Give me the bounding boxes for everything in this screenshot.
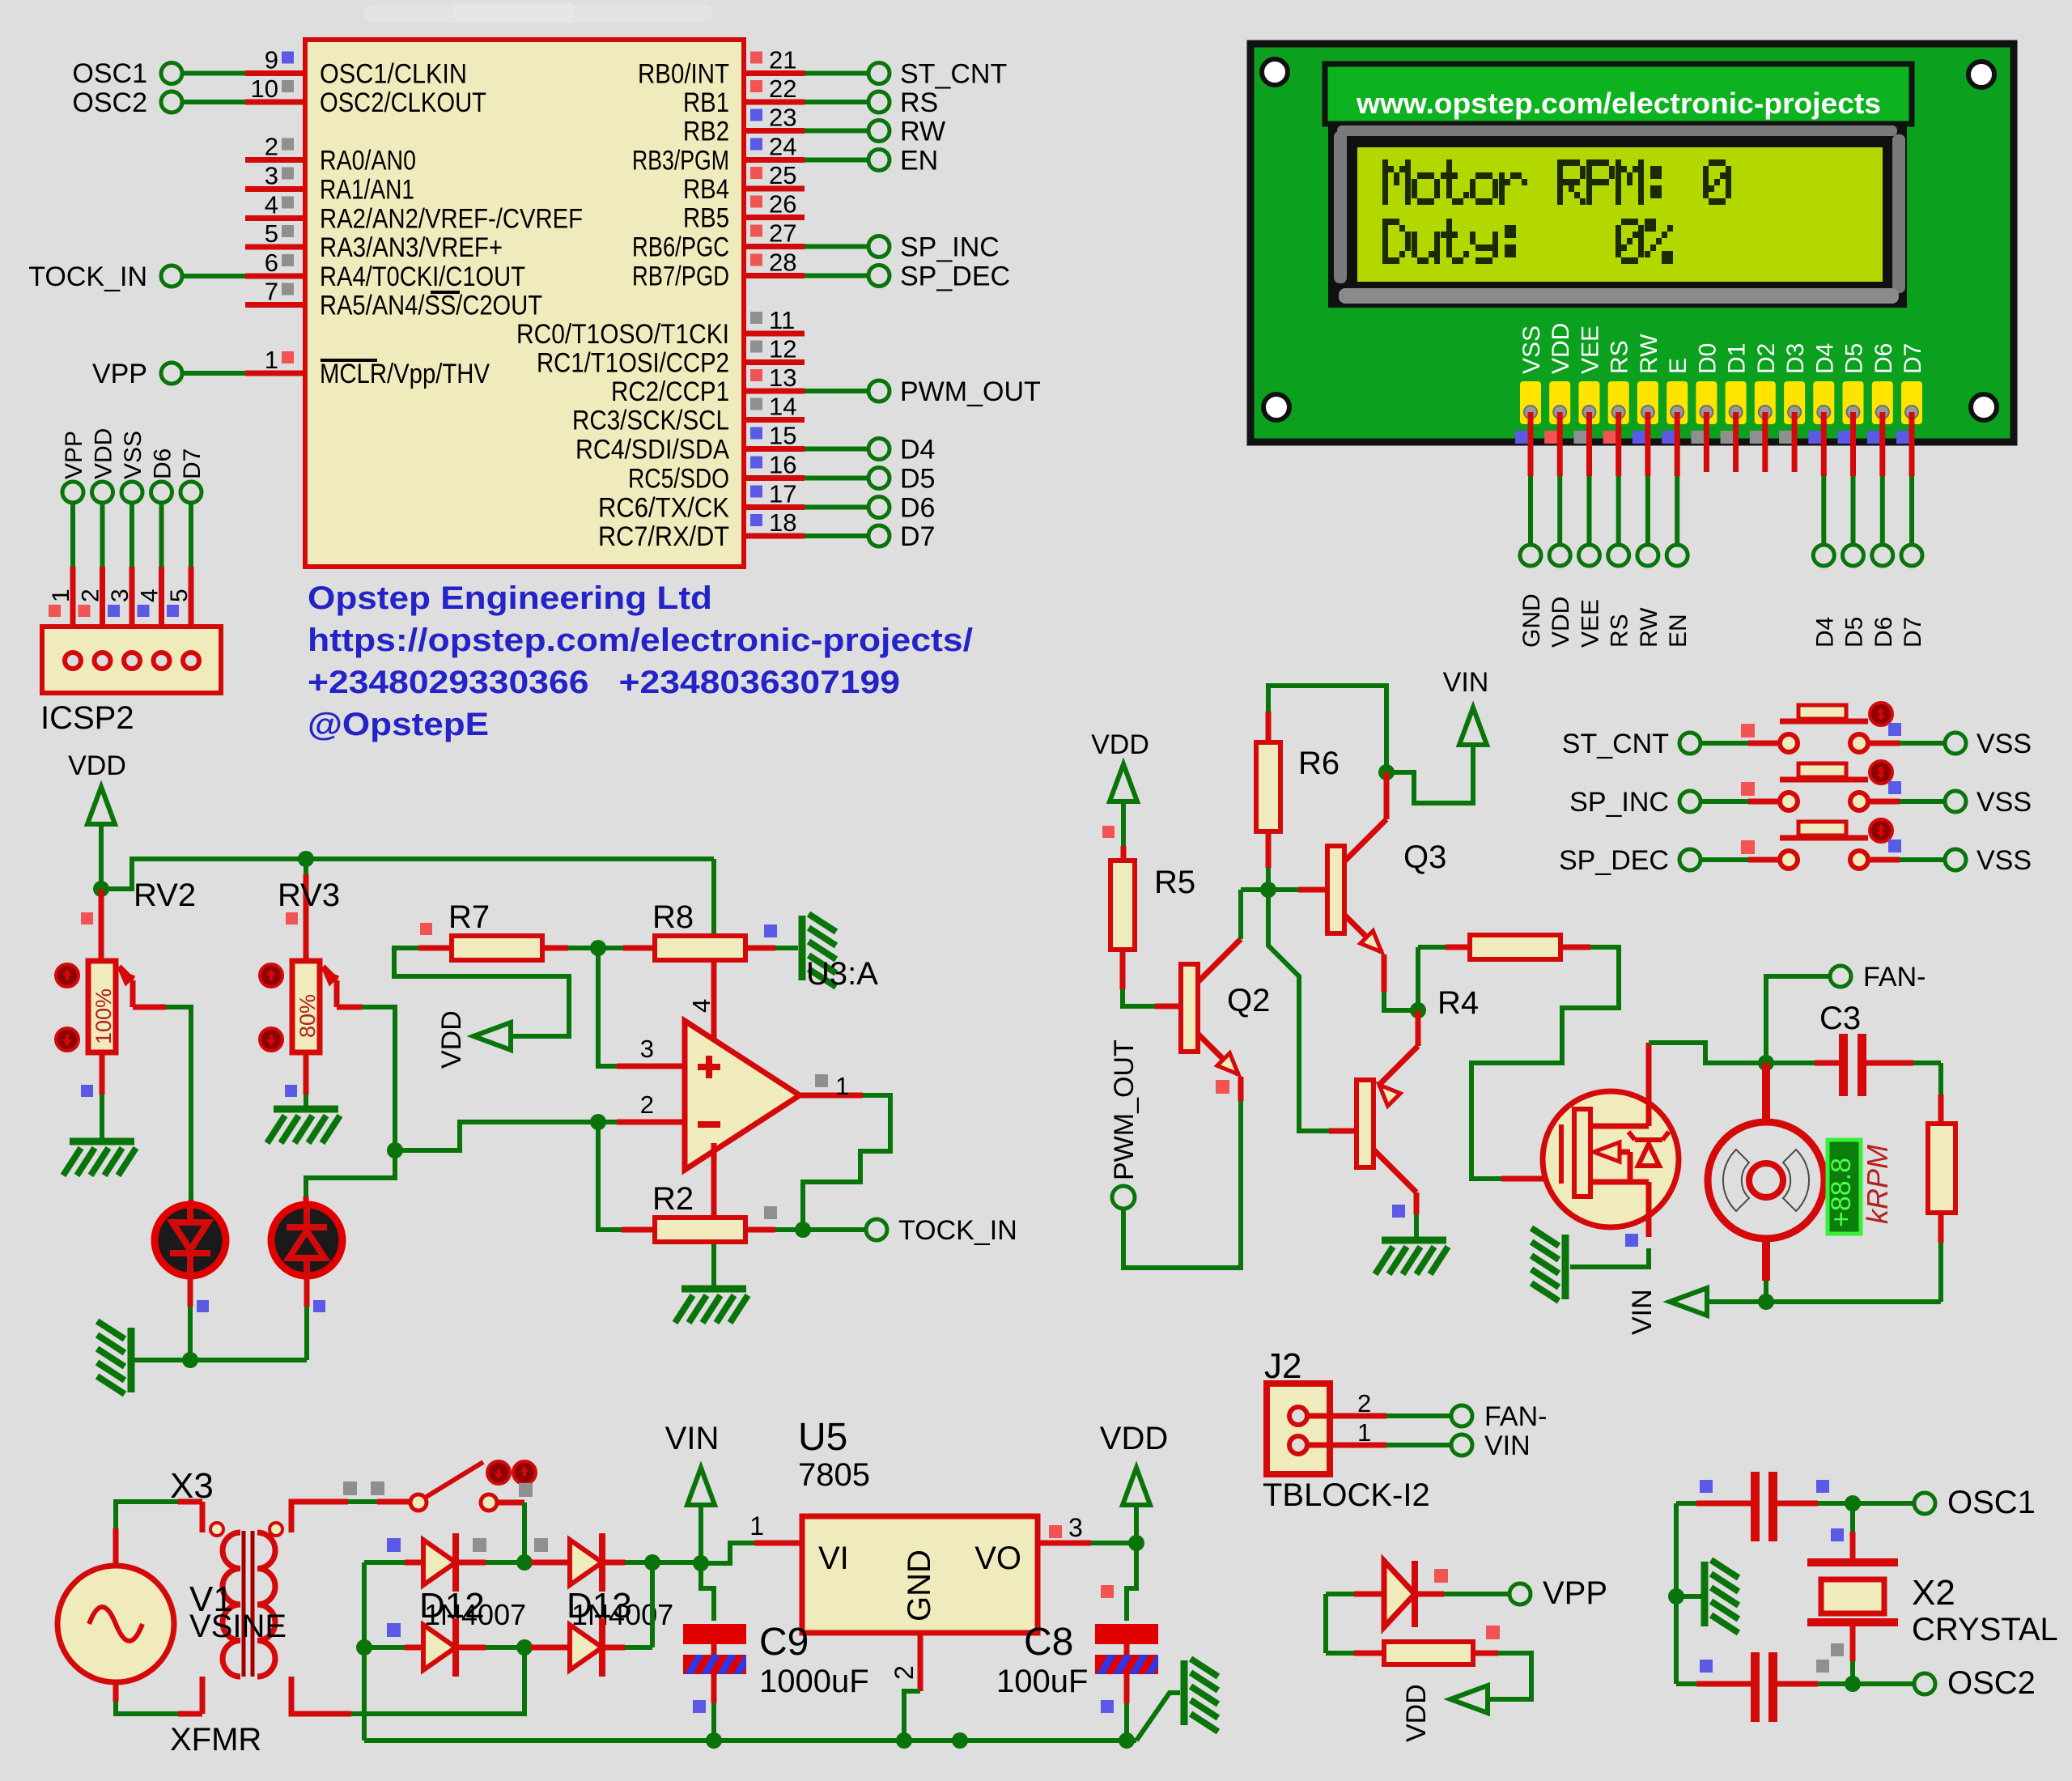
- switch SW1: [410, 1494, 427, 1511]
- wire LCD pin D7: [1896, 431, 1909, 444]
- svg-text:D6: D6: [1870, 617, 1897, 648]
- svg-text:D7: D7: [900, 521, 935, 552]
- svg-text:12: 12: [769, 335, 796, 363]
- resistor R-vpp: [1326, 1651, 1354, 1656]
- node VIN collector junction: [1378, 764, 1395, 780]
- diode D12: [423, 1540, 456, 1585]
- svg-text:R2: R2: [652, 1181, 694, 1217]
- ICSP2 terminal VPP: [62, 482, 83, 503]
- wire to terminal RS: [805, 100, 868, 104]
- svg-text:PWM_OUT: PWM_OUT: [1109, 1039, 1140, 1180]
- wire button ST_CNT left: [1700, 741, 1748, 746]
- svg-text:kRPM: kRPM: [1861, 1145, 1894, 1224]
- svg-text:1N4007: 1N4007: [424, 1598, 526, 1631]
- LCD pin pad D5: [1843, 381, 1864, 424]
- terminal TOCK_IN (opamp): [866, 1219, 887, 1240]
- svg-text:1: 1: [1357, 1418, 1371, 1447]
- wire LCD pin D5: [1838, 431, 1851, 444]
- terminal D5 (LCD): [1843, 545, 1864, 566]
- svg-text:RC1/T1OSI/CCP2: RC1/T1OSI/CCP2: [537, 348, 729, 379]
- node Q3 base junction: [1260, 882, 1276, 898]
- opamp minus marker: [698, 1121, 720, 1128]
- wire R6 top: [1268, 686, 1386, 772]
- svg-text:www.opstep.com/electronic-proj: www.opstep.com/electronic-projects: [1356, 87, 1881, 120]
- wire to terminal EN: [805, 158, 868, 163]
- wire R7 right: [542, 946, 568, 951]
- svg-text:Opstep Engineering Ltd: Opstep Engineering Ltd: [308, 580, 712, 616]
- node LED rail junction: [182, 1352, 198, 1368]
- connector ICSP2 body: [42, 627, 221, 693]
- svg-text:RB2: RB2: [683, 117, 729, 147]
- svg-text:CRYSTAL: CRYSTAL: [1912, 1612, 2058, 1647]
- push button SP_INC: [1780, 793, 1798, 810]
- ground U3:A supply: [802, 914, 836, 987]
- wire to terminal D7: [805, 533, 868, 538]
- terminal SP_DEC: [868, 266, 890, 287]
- transformer core: [242, 1531, 246, 1677]
- terminal FAN- (J2): [1451, 1405, 1472, 1426]
- ground RV3: [267, 1109, 340, 1143]
- resistor R-sense: [1928, 1124, 1955, 1213]
- svg-text:D0: D0: [1694, 343, 1721, 374]
- svg-text:5: 5: [166, 589, 193, 602]
- capacitor C9: [701, 1563, 714, 1621]
- svg-text:D1: D1: [1724, 343, 1751, 374]
- wire button SP_DEC right: [1868, 857, 1900, 863]
- wire U5 pin3 out: [1038, 1541, 1091, 1546]
- wire Q3 collector: [1384, 772, 1390, 819]
- svg-text:TOCK_IN: TOCK_IN: [898, 1215, 1017, 1246]
- wire Q2 emitter to PWM_OUT: [1238, 1077, 1244, 1101]
- LCD pin pad VSS: [1520, 381, 1541, 424]
- svg-text:OSC2: OSC2: [72, 87, 147, 118]
- pin 1 MCLR/Vpp/THV stub: [245, 371, 305, 376]
- svg-text:R7: R7: [448, 899, 490, 935]
- wire LCD pin D1: [1721, 431, 1734, 444]
- svg-text:VO: VO: [974, 1541, 1021, 1576]
- wire VDD rail down through R8 (pin 4): [711, 859, 716, 936]
- svg-text:28: 28: [769, 249, 796, 277]
- wire secondary top to switch: [289, 1515, 295, 1532]
- svg-text:RA4/T0CKI/C1OUT: RA4/T0CKI/C1OUT: [320, 261, 525, 292]
- svg-text:SP_INC: SP_INC: [900, 232, 1000, 263]
- svg-text:PWM_OUT: PWM_OUT: [900, 376, 1041, 407]
- svg-text:2: 2: [265, 133, 278, 161]
- svg-text:RC6/TX/CK: RC6/TX/CK: [598, 493, 729, 524]
- transistor Q4: [1357, 1080, 1374, 1167]
- wire LCD pin VEE: [1574, 431, 1587, 444]
- wire MOSFET source to ground: [1646, 1182, 1652, 1237]
- pin 22 RB1 stub: [744, 100, 805, 105]
- svg-text:RB4: RB4: [683, 174, 729, 205]
- AC source V1: [57, 1566, 174, 1682]
- overline for SS: [431, 291, 460, 294]
- node R7/R8 junction: [590, 940, 606, 956]
- pin 16 RC5/SDO stub: [744, 475, 805, 481]
- svg-text:D2: D2: [1753, 343, 1780, 374]
- MOSFET internal drain tap: [1590, 1124, 1649, 1129]
- svg-text:9: 9: [265, 46, 278, 74]
- potentiometer RV3 body: [292, 961, 320, 1052]
- pin 12 RC1/T1OSI/CCP2 stub: [744, 359, 805, 365]
- svg-text:Q2: Q2: [1227, 983, 1270, 1018]
- svg-text:14: 14: [769, 393, 796, 421]
- svg-text:EN: EN: [900, 146, 938, 176]
- LCD pin pad E: [1667, 381, 1688, 424]
- wire R5 to Q2 base: [1120, 950, 1126, 989]
- node pin2 junction: [590, 1114, 606, 1130]
- svg-text:D4: D4: [900, 435, 935, 465]
- svg-text:15: 15: [769, 422, 796, 450]
- svg-text:RC0/T1OSO/T1CKI: RC0/T1OSO/T1CKI: [516, 319, 729, 350]
- terminal VSS (button SP_INC): [1945, 791, 1966, 812]
- wire R7 left + VDD feed: [394, 948, 569, 1036]
- pin 15 RC4/SDI/SDA stub: [744, 446, 805, 452]
- svg-text:VSS: VSS: [1976, 845, 2032, 876]
- terminal SP_INC (button): [1679, 791, 1700, 812]
- ground Q4: [1375, 1240, 1448, 1274]
- ICSP2 pin circle 1: [65, 652, 81, 669]
- svg-text:4: 4: [687, 999, 715, 1013]
- svg-text:RS: RS: [1607, 614, 1633, 648]
- wire bridge right rail: [650, 1562, 655, 1647]
- svg-text:SP_INC: SP_INC: [1569, 787, 1669, 818]
- diode D13: [531, 1560, 570, 1566]
- wire to terminal SP_DEC: [805, 274, 868, 278]
- terminal FAN- (motor): [1830, 966, 1851, 987]
- svg-text:17: 17: [769, 480, 796, 508]
- pin 10 OSC2/CLKOUT stub: [245, 100, 305, 105]
- wire LCD pin D0: [1691, 431, 1704, 444]
- svg-text:D3: D3: [1782, 343, 1809, 374]
- wire R8 right to ground: [745, 946, 775, 951]
- svg-text:D7: D7: [1900, 343, 1926, 374]
- wire button ST_CNT right: [1868, 741, 1900, 746]
- svg-text:RS: RS: [900, 87, 938, 118]
- motor brush right: [1783, 1150, 1809, 1211]
- svg-text:RW: RW: [900, 117, 945, 147]
- svg-text:11: 11: [769, 306, 795, 334]
- svg-text:6: 6: [265, 249, 278, 277]
- node bridge output junction: [644, 1554, 660, 1571]
- push button SP_DEC: [1780, 851, 1798, 869]
- svg-text:D7: D7: [179, 448, 206, 479]
- svg-text:VPP: VPP: [1543, 1575, 1607, 1611]
- svg-text:21: 21: [769, 46, 796, 74]
- svg-text:RB7/PGD: RB7/PGD: [632, 261, 729, 292]
- svg-text:RB1: RB1: [683, 87, 729, 118]
- wire LCD pin RW: [1633, 431, 1645, 444]
- LCD pin pad D0: [1696, 381, 1717, 424]
- svg-text:27: 27: [769, 219, 796, 248]
- svg-text:VSS: VSS: [1518, 325, 1545, 374]
- terminal PWM_OUT: [868, 380, 890, 402]
- wire LED D9 bottom: [188, 1276, 193, 1307]
- svg-text:J2: J2: [1264, 1346, 1301, 1386]
- LCD mounting holes: [1262, 59, 1288, 85]
- wire LED ground rail: [131, 1358, 307, 1362]
- svg-text:RA0/AN0: RA0/AN0: [320, 146, 416, 176]
- svg-text:2: 2: [890, 1665, 919, 1680]
- ICSP2 pin circle 3: [124, 652, 140, 669]
- wire V1 bottom to primary: [113, 1682, 119, 1702]
- power VIN arrow (motor): [1670, 1288, 1707, 1316]
- pin 27 RB6/PGC stub: [744, 244, 805, 249]
- svg-text:VPP: VPP: [92, 359, 147, 389]
- LED D10: [271, 1205, 342, 1276]
- opamp plus marker: [698, 1064, 720, 1070]
- pin 2 RA0/AN0 stub: [245, 157, 305, 163]
- terminal D7: [868, 525, 890, 546]
- svg-text:80%: 80%: [295, 994, 320, 1038]
- svg-text:25: 25: [769, 161, 796, 189]
- terminal RW: [868, 121, 890, 142]
- ICSP2 terminal VSS: [121, 482, 142, 503]
- svg-text:1: 1: [48, 589, 74, 602]
- svg-text:RA1/AN1: RA1/AN1: [320, 175, 414, 206]
- svg-text:22: 22: [769, 74, 796, 103]
- svg-text:7: 7: [265, 278, 278, 306]
- svg-text:OSC1: OSC1: [1947, 1485, 2036, 1520]
- wire LCD pin VSS: [1515, 431, 1528, 444]
- wire ICSP2 pin 4: [159, 504, 164, 567]
- wire bridge left rail: [362, 1562, 367, 1741]
- terminal OSC2 (crystal): [1914, 1673, 1935, 1694]
- wire RV2 bottom to ground: [100, 1052, 105, 1095]
- MOSFET Q1 circle: [1543, 1091, 1679, 1227]
- svg-text:7805: 7805: [798, 1457, 870, 1493]
- wire LCD pin VDD: [1544, 431, 1557, 444]
- resistor R4: [1470, 935, 1560, 959]
- svg-text:2: 2: [640, 1090, 654, 1119]
- wire junction to LED D10: [306, 1150, 395, 1197]
- svg-text:VIN: VIN: [665, 1421, 720, 1456]
- terminal EN: [868, 150, 890, 171]
- svg-text:ST_CNT: ST_CNT: [900, 59, 1007, 90]
- svg-text:RC3/SCK/SCL: RC3/SCK/SCL: [572, 406, 729, 436]
- LCD board: [1250, 44, 2014, 442]
- svg-text:2: 2: [78, 589, 104, 602]
- svg-text:RW: RW: [1636, 334, 1662, 374]
- svg-text:100%: 100%: [91, 988, 116, 1044]
- MOSFET body arrow: [1594, 1142, 1620, 1162]
- node RV2 top junction: [93, 881, 109, 897]
- node RV3 wiper junction: [387, 1142, 403, 1158]
- crystal X2: [1807, 1558, 1898, 1566]
- wire VDD to node: [99, 824, 104, 889]
- node TOCK_IN junction: [795, 1222, 811, 1238]
- pin 5 RA3/AN3/VREF+ stub: [245, 244, 305, 250]
- diode D12b: [423, 1625, 456, 1670]
- wire VDD rail to R8: [101, 859, 714, 889]
- diode D14 (VPP): [1326, 1592, 1354, 1596]
- ground R2: [675, 1289, 748, 1323]
- svg-text:VEE: VEE: [1577, 599, 1604, 648]
- wire to terminal SP_INC: [805, 244, 868, 249]
- wire bottom supply rail: [364, 1738, 1136, 1743]
- svg-text:13: 13: [769, 363, 796, 392]
- LCD pin pad VEE: [1579, 381, 1600, 424]
- svg-text:VPP: VPP: [61, 431, 87, 479]
- Q4 base feed: [1268, 890, 1329, 1131]
- svg-text:RC4/SDI/SDA: RC4/SDI/SDA: [575, 435, 729, 465]
- svg-text:D6: D6: [900, 493, 935, 524]
- terminal VPP: [161, 363, 182, 384]
- svg-text:https://opstep.com/electronic-: https://opstep.com/electronic-projects/: [308, 623, 973, 658]
- pin 4 RA2/AN2/VREF-/CVREF stub: [245, 215, 305, 221]
- capacitor C3: [1766, 1061, 1815, 1065]
- svg-text:Q3: Q3: [1403, 839, 1446, 875]
- wire RV2 top: [99, 889, 104, 963]
- node OSC1 junction: [1845, 1495, 1861, 1511]
- wire crystal left rail: [1674, 1503, 1679, 1684]
- svg-text:VDD: VDD: [1100, 1421, 1168, 1456]
- RV2 adjust up button: [56, 964, 79, 987]
- svg-text:FAN-: FAN-: [1863, 962, 1926, 993]
- ICSP2 terminal D6: [151, 482, 172, 503]
- push button ST_CNT: [1780, 734, 1798, 752]
- wire to terminal D5: [805, 476, 868, 481]
- terminal D5: [868, 468, 890, 489]
- wire junction to pin3: [598, 948, 617, 1066]
- LED D9: [155, 1205, 226, 1276]
- wire base rail: [1241, 887, 1298, 892]
- ICSP2 terminal VDD: [92, 482, 113, 503]
- wire OSC1: [183, 71, 245, 76]
- ground supply: [1184, 1659, 1218, 1732]
- terminal VIN (J2): [1451, 1435, 1472, 1456]
- terminal SP_INC: [868, 236, 890, 257]
- ICSP2 pin circle 4: [154, 652, 170, 669]
- transformer TR1 primary: [223, 1532, 240, 1677]
- svg-text:RA2/AN2/VREF-/CVREF: RA2/AN2/VREF-/CVREF: [320, 204, 583, 235]
- svg-text:D5: D5: [1841, 617, 1868, 648]
- button SP_DEC actuator: [1870, 819, 1892, 842]
- wire V1 top to primary: [113, 1528, 119, 1566]
- RV3 adjust up button: [260, 964, 282, 987]
- svg-text:VDD: VDD: [68, 750, 126, 781]
- wire bridge row2: [356, 1639, 372, 1656]
- svg-text:VIN: VIN: [1443, 667, 1489, 698]
- wire R8 left: [598, 946, 623, 950]
- terminal D4: [868, 439, 890, 460]
- LCD pin pad VDD: [1549, 381, 1570, 424]
- LCD text row1 Motor RPM: 0: [1382, 159, 1731, 205]
- svg-text:1: 1: [265, 346, 278, 374]
- LCD screen: [1357, 147, 1883, 282]
- svg-text:D7: D7: [1900, 617, 1926, 648]
- wire to terminal ST_CNT: [805, 71, 868, 76]
- wire to supply ground: [1136, 1693, 1180, 1741]
- Q2 emitter: [1198, 1034, 1238, 1074]
- wire bridge row1: [516, 1554, 533, 1571]
- terminal OSC1 (crystal): [1914, 1493, 1935, 1514]
- svg-text:1: 1: [749, 1511, 764, 1541]
- wire R2 vertical to ground: [711, 1143, 717, 1218]
- terminal ST_CNT: [868, 63, 890, 84]
- svg-text:D6: D6: [1870, 343, 1897, 374]
- svg-text:OSC1/CLKIN: OSC1/CLKIN: [320, 59, 467, 90]
- RV3 adjust down button: [260, 1028, 282, 1051]
- pin 18 RC7/RX/DT stub: [744, 533, 805, 539]
- ground RV2: [63, 1141, 136, 1175]
- svg-text:VDD: VDD: [1091, 729, 1149, 760]
- terminal RS: [868, 91, 890, 113]
- svg-text:@OpstepE: @OpstepE: [308, 707, 489, 742]
- wire MOSFET drain: [1646, 1091, 1652, 1126]
- terminal GND (LCD): [1520, 545, 1541, 566]
- wire RV3 top: [304, 859, 308, 874]
- svg-text:VDD: VDD: [91, 428, 117, 479]
- svg-text:1N4007: 1N4007: [571, 1598, 673, 1631]
- wire to terminal RW: [805, 129, 868, 134]
- transformer TR1 secondary: [257, 1532, 275, 1677]
- svg-text:D5: D5: [900, 464, 935, 495]
- wire button SP_DEC left: [1700, 857, 1748, 862]
- svg-text:VDD: VDD: [436, 1010, 467, 1069]
- svg-text:R8: R8: [652, 899, 694, 935]
- faint watermark strip: [364, 5, 712, 23]
- pin 13 RC2/CCP1 stub: [744, 389, 805, 394]
- svg-text:R6: R6: [1298, 746, 1340, 781]
- wire to VDD arrow: [1488, 1653, 1531, 1699]
- wire U5 pin2 GND: [918, 1633, 923, 1691]
- capacitor C8: [1127, 1543, 1136, 1621]
- pin 7 RA5/AN4/SS/C2OUT stub: [245, 302, 305, 308]
- switch actuator buttons: [487, 1461, 510, 1484]
- wire LCD pin D4: [1808, 431, 1821, 444]
- LCD pin pad D3: [1784, 381, 1805, 424]
- wire ICSP2 pin 2: [100, 504, 105, 567]
- svg-text:X2: X2: [1912, 1573, 1955, 1613]
- transistor Q3: [1327, 846, 1344, 933]
- ground LEDs: [97, 1321, 131, 1394]
- node OSC2 junction: [1845, 1676, 1861, 1692]
- svg-text:4: 4: [265, 191, 278, 219]
- terminal D7 (LCD): [1901, 545, 1922, 566]
- svg-text:VSS: VSS: [120, 431, 146, 479]
- connector J2 TBLOCK-I2: [1267, 1384, 1330, 1474]
- resistor R5: [1110, 861, 1135, 950]
- ground MOSFET source: [1531, 1228, 1565, 1301]
- wire J2 pin1: [1307, 1443, 1386, 1448]
- wire crystal bottom: [1850, 1626, 1856, 1661]
- terminal D4 (LCD): [1813, 545, 1834, 566]
- terminal RW (LCD): [1637, 545, 1658, 566]
- Q3 emitter: [1344, 915, 1382, 952]
- pin 6 RA4/T0CKI/C1OUT stub: [245, 274, 305, 279]
- overline for MCLR: [321, 359, 377, 362]
- svg-text:R4: R4: [1437, 985, 1479, 1021]
- svg-text:FAN-: FAN-: [1484, 1401, 1547, 1432]
- svg-text:RB5: RB5: [683, 203, 729, 234]
- wire R4 right staircase to MOSFET gate: [1562, 945, 1590, 950]
- terminal VSS (button SP_DEC): [1945, 849, 1966, 870]
- svg-text:3: 3: [265, 162, 278, 190]
- terminal D6: [868, 497, 890, 518]
- transformer polarity dots: [210, 1523, 223, 1536]
- wire junction to opamp pin2: [395, 1122, 595, 1150]
- node VIN bottom junction: [1758, 1294, 1774, 1310]
- wire OSC2: [183, 100, 245, 104]
- ground crystal: [1705, 1560, 1739, 1633]
- svg-text:+88.8: +88.8: [1826, 1158, 1857, 1227]
- MOSFET internal source tap: [1590, 1180, 1649, 1185]
- svg-text:VIN: VIN: [1627, 1289, 1658, 1335]
- node VDD junction: [1128, 1535, 1144, 1551]
- motor bottom wire: [1762, 1239, 1770, 1281]
- svg-text:D4: D4: [1811, 343, 1838, 374]
